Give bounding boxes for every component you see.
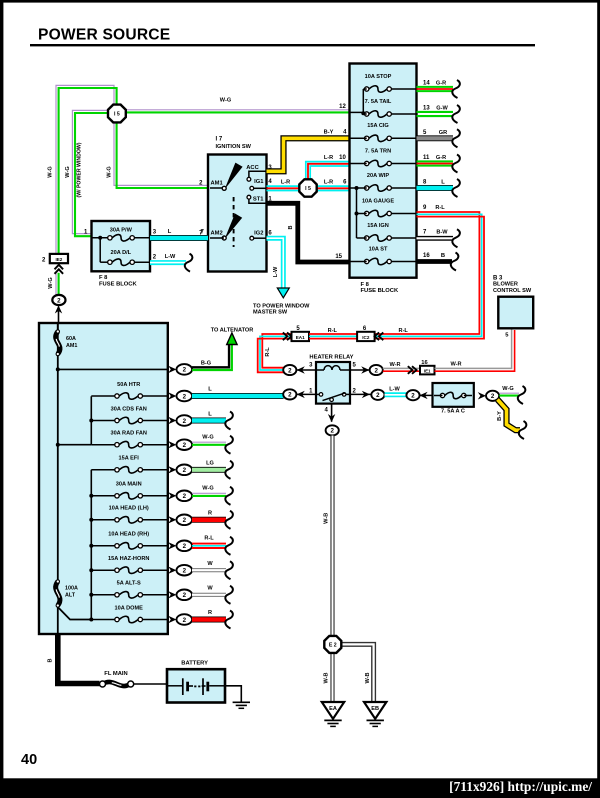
svg-text:G-R: G-R [436, 155, 446, 161]
wire R (10A DOME) [192, 617, 226, 623]
svg-text:2: 2 [183, 493, 187, 500]
internal feed ST [350, 261, 367, 263]
svg-text:2: 2 [183, 367, 187, 374]
svg-text:R-L: R-L [265, 347, 271, 357]
svg-text:BATTERY: BATTERY [181, 661, 208, 667]
wire W-G from node I5 down to P/W fuse block pin 1 [72, 110, 108, 233]
svg-text:40: 40 [21, 752, 37, 768]
svg-text:5A ALT-S: 5A ALT-S [117, 581, 141, 587]
svg-text:10A ST: 10A ST [369, 246, 388, 252]
wire to battery [134, 683, 167, 685]
svg-text:W-B: W-B [323, 513, 329, 524]
wire W-B from E2 to ground EB [341, 643, 376, 702]
main bus vertical [57, 323, 59, 581]
svg-text:FL MAIN: FL MAIN [104, 671, 127, 677]
svg-text:W-G: W-G [48, 166, 54, 177]
diagonal from ALT to DOME row [58, 607, 92, 620]
svg-text:15: 15 [335, 254, 342, 260]
output pin arrow + connector 2 [168, 366, 176, 373]
svg-text:2: 2 [183, 467, 187, 474]
wire L-W from D/L fuse pin 2 [150, 260, 186, 265]
svg-text:W-G: W-G [107, 166, 113, 177]
internal rail WIP/GAUGE/IGN [350, 187, 367, 189]
output pin arrow + connector 2 [168, 392, 176, 399]
relay coil [316, 369, 324, 371]
svg-text:IG2: IG2 [254, 230, 263, 236]
wire W-G (30A RAD FAN) [192, 441, 226, 443]
svg-text:11: 11 [423, 155, 430, 161]
svg-text:L-R: L-R [324, 180, 333, 186]
svg-text:2: 2 [183, 418, 187, 425]
svg-text:ST1: ST1 [253, 196, 264, 202]
svg-text:60A: 60A [66, 336, 76, 342]
wire LG (15A EFI) [192, 467, 226, 473]
output pin arrow + connector 2 [168, 567, 176, 574]
svg-text:L-R: L-R [324, 155, 333, 161]
fusible link 100A ALT [56, 582, 60, 606]
svg-text:F 8: F 8 [361, 282, 370, 288]
wire W-B from E2 to ground EA [330, 652, 334, 702]
svg-text:7. 5A TRN: 7. 5A TRN [365, 148, 391, 154]
svg-text:B-Y: B-Y [497, 411, 503, 421]
wire B-Y from ACC to fuse block pin 4 [267, 138, 350, 171]
svg-text:B: B [288, 225, 294, 229]
svg-text:EB: EB [371, 706, 379, 712]
svg-text:30A CDS FAN: 30A CDS FAN [111, 406, 147, 412]
svg-text:30A P/W: 30A P/W [110, 227, 133, 233]
svg-text:L-W: L-W [273, 266, 279, 277]
svg-text:IE1: IE1 [424, 369, 431, 374]
svg-text:2: 2 [288, 392, 292, 399]
main fuse box (power distribution) [39, 323, 168, 634]
arrow into main fuse box from node 2 [58, 311, 60, 323]
output pin arrow + connector 2 [168, 466, 176, 473]
svg-text:15A EFI: 15A EFI [119, 456, 140, 462]
ignition mechanical link (dashed) [233, 197, 235, 247]
node I5 (octagon, top left) [108, 105, 126, 123]
output pin arrow + connector 2 [168, 616, 176, 623]
wire R (10A HEAD LH) [192, 517, 226, 523]
svg-text:L-W: L-W [165, 254, 176, 260]
svg-text:LG: LG [206, 460, 214, 466]
svg-text:[711x926] http://upic.me/: [711x926] http://upic.me/ [449, 779, 592, 794]
svg-text:L: L [208, 411, 212, 417]
svg-text:16: 16 [423, 253, 430, 259]
ignition switch lever AM1 [225, 163, 243, 190]
svg-text:2: 2 [288, 367, 292, 374]
fuse rail inside left F8 [99, 238, 101, 262]
svg-text:E 2: E 2 [329, 642, 337, 648]
B-G output row (to alternator) [58, 368, 168, 370]
relay pin 1 connector (from 50A HTR) [296, 393, 316, 395]
wire L (30A CDS FAN) [192, 418, 226, 424]
relay pin 3 connector 2 [296, 369, 316, 371]
svg-text:B: B [441, 253, 445, 259]
svg-text:15A CIG: 15A CIG [367, 123, 389, 129]
svg-text:B 3: B 3 [493, 275, 503, 281]
svg-text:W-G: W-G [48, 277, 54, 288]
svg-text:15A HAZ-HORN: 15A HAZ-HORN [108, 556, 149, 562]
svg-text:AM1: AM1 [211, 181, 224, 187]
svg-text:B-W: B-W [436, 229, 448, 235]
fuse block F8 (left) box [92, 221, 151, 271]
svg-text:FUSE BLOCK: FUSE BLOCK [99, 281, 137, 287]
svg-text:2: 2 [57, 297, 61, 304]
output pin arrow + connector 2 [168, 492, 176, 499]
node I5 (octagon, near ignition) [299, 179, 316, 196]
fuse rail (EFI-DOME) [90, 470, 92, 620]
svg-text:IGNITION SW: IGNITION SW [216, 144, 252, 150]
svg-text:2: 2 [183, 568, 187, 575]
svg-text:TO ALTENATOR: TO ALTENATOR [211, 327, 254, 333]
fuse 7.5A A C box [433, 383, 474, 407]
svg-text:I 5: I 5 [305, 186, 311, 192]
wire W (15A HAZ-HORN) [192, 568, 226, 572]
svg-text:100A: 100A [65, 586, 78, 592]
svg-text:50A HTR: 50A HTR [117, 382, 140, 388]
svg-text:AM2: AM2 [211, 230, 223, 236]
svg-text:7. 5A A C: 7. 5A A C [441, 409, 465, 415]
svg-text:W-G: W-G [502, 386, 513, 392]
output pin arrow + connector 2 [168, 516, 176, 523]
wire R-L from EA1 down to relay pin 3 [262, 334, 291, 368]
output pin arrow + connector 2 [168, 542, 176, 549]
svg-text:10A HEAD (RH): 10A HEAD (RH) [108, 532, 149, 538]
svg-text:2: 2 [491, 393, 495, 400]
output pin arrow + connector 2 [168, 591, 176, 598]
wire B-G to alternator [192, 342, 229, 367]
svg-text:10A STOP: 10A STOP [365, 74, 392, 80]
connector IC2 [357, 332, 375, 341]
wire W-G loop from IE2 riser to node I5 (top) [56, 85, 114, 254]
svg-text:EA: EA [329, 706, 337, 712]
connector EA1 [287, 333, 292, 341]
connector IE2 [50, 254, 68, 263]
wire B from ST1 to fuse block pin 15 [267, 203, 350, 262]
output pin arrow + connector 2 [168, 417, 176, 424]
svg-text:2: 2 [330, 428, 334, 435]
svg-text:R-L: R-L [435, 205, 445, 211]
svg-text:12: 12 [339, 104, 346, 110]
svg-text:2: 2 [183, 543, 187, 550]
fuse rail (HTR-RAD) [90, 396, 92, 444]
svg-text:W: W [207, 585, 213, 591]
internal feed TRN [350, 163, 367, 165]
svg-text:EA1: EA1 [296, 335, 305, 340]
svg-text:L: L [441, 179, 445, 185]
wire L-R from node I5 to fuse block pin 6 [316, 185, 349, 187]
op: ignition switch I7 box [208, 155, 267, 272]
internal feed CIG [350, 137, 367, 139]
svg-text:20A D/L: 20A D/L [110, 250, 131, 256]
svg-text:GR: GR [439, 130, 447, 136]
node 2 (circle, left) [52, 295, 65, 305]
svg-text:HEATER RELAY: HEATER RELAY [309, 354, 353, 360]
svg-text:W-B: W-B [365, 672, 371, 683]
wire L (50A HTR) to heater relay [192, 393, 284, 399]
svg-text:W-B: W-B [323, 672, 329, 683]
bus tap to rail [58, 444, 92, 446]
wire W-G (30A MAIN) [192, 492, 226, 494]
svg-text:7. 5A TAIL: 7. 5A TAIL [365, 99, 392, 105]
ignition switch lever AM2 [225, 214, 243, 240]
svg-text:W-R: W-R [450, 362, 461, 368]
svg-text:R: R [208, 610, 212, 616]
svg-text:W-G: W-G [202, 434, 213, 440]
svg-text:10A GAUGE: 10A GAUGE [362, 198, 394, 204]
svg-text:L: L [208, 387, 212, 393]
A/C fuse output connector [478, 392, 486, 399]
svg-text:W-G: W-G [202, 485, 213, 491]
svg-text:B: B [47, 658, 53, 662]
wire W-G from IE2 to node 2 [55, 273, 57, 296]
svg-text:IE2: IE2 [55, 257, 62, 262]
svg-text:FUSE BLOCK: FUSE BLOCK [361, 288, 399, 294]
wire B from main box to FL MAIN [58, 634, 100, 684]
svg-text:10: 10 [339, 155, 346, 161]
wire B-Y output [498, 400, 521, 431]
svg-text:2: 2 [376, 392, 380, 399]
svg-text:I 5: I 5 [114, 111, 120, 117]
svg-text:L-W: L-W [389, 386, 400, 392]
svg-text:2: 2 [183, 592, 187, 599]
relay pin 2 to A/C fuse (L-W) [350, 393, 371, 395]
wire W (5A ALT-S) [192, 593, 226, 597]
relay pin 4 connector 2 [331, 404, 333, 422]
svg-text:F 8: F 8 [99, 275, 108, 281]
battery ground [225, 686, 241, 703]
svg-text:BLOWER: BLOWER [493, 282, 518, 288]
svg-text:20A WIP: 20A WIP [367, 173, 389, 179]
svg-text:W-R: W-R [389, 362, 400, 368]
svg-text:2: 2 [183, 393, 187, 400]
svg-text:2: 2 [183, 517, 187, 524]
svg-text:15A IGN: 15A IGN [367, 223, 389, 229]
svg-text:R-L: R-L [399, 328, 409, 334]
wire W-B from relay pin 4 to node E2 [330, 436, 334, 637]
svg-text:POWER SOURCE: POWER SOURCE [38, 27, 170, 44]
svg-text:IC2: IC2 [362, 335, 370, 340]
wire R-L between EA1 and IC2 [309, 333, 357, 335]
svg-text:10A HEAD (LH): 10A HEAD (LH) [109, 506, 149, 512]
wire W-G from node I5 right to fuse block F8 pin 12 [126, 109, 350, 111]
output pin arrow + connector 2 [168, 441, 176, 448]
svg-text:30A RAD FAN: 30A RAD FAN [110, 431, 146, 437]
wire W-R from IE1 to blower control switch [435, 328, 512, 368]
arrow to power window master sw [277, 288, 289, 298]
wire L-R from node I5 up to fuse block pin 10 [306, 162, 350, 181]
svg-text:AM1: AM1 [66, 343, 77, 349]
connector IE1 [420, 366, 435, 375]
svg-text:W-G: W-G [65, 166, 71, 177]
svg-text:L: L [168, 229, 172, 235]
relay pin 5 to IE1 (W-R) [350, 369, 370, 371]
svg-text:14: 14 [423, 81, 430, 87]
fusible link 60A AM1 [57, 323, 59, 331]
svg-text:30A MAIN: 30A MAIN [116, 482, 142, 488]
svg-text:ALT: ALT [65, 593, 76, 599]
svg-text:ACC: ACC [246, 165, 259, 171]
wire W-G output [499, 392, 519, 394]
junction chevrons below IE2 [55, 265, 64, 270]
svg-text:MASTER SW: MASTER SW [253, 310, 288, 316]
fuse block F8 (top right) box [350, 64, 417, 278]
svg-text:TO POWER WINDOW: TO POWER WINDOW [253, 303, 310, 309]
svg-text:16: 16 [421, 360, 428, 366]
svg-text:10A DOME: 10A DOME [115, 605, 144, 611]
svg-text:W: W [207, 561, 213, 567]
svg-text:B-G: B-G [201, 360, 211, 366]
svg-text:2: 2 [374, 367, 378, 374]
ground EB [364, 702, 386, 719]
svg-text:R-L: R-L [328, 328, 338, 334]
svg-text:G-W: G-W [436, 106, 448, 112]
internal rail STOP/TAIL [363, 88, 366, 90]
svg-text:CONTROL SW: CONTROL SW [493, 288, 532, 294]
svg-text:13: 13 [423, 106, 430, 112]
svg-text:G-R: G-R [436, 81, 446, 87]
svg-text:IG1: IG1 [254, 179, 264, 185]
svg-text:R-L: R-L [204, 535, 214, 541]
wire L-W from IG2 to power window master switch [267, 238, 284, 288]
svg-text:L-R: L-R [281, 180, 290, 186]
wire L from P/W fuse pin 3 to ignition AM2 [150, 235, 208, 241]
svg-text:2: 2 [411, 393, 415, 400]
wire W-G from node I5 down to ignition switch AM1 [114, 123, 208, 186]
svg-text:2: 2 [183, 617, 187, 624]
wire L-R from IG1 to node I5 (right) [267, 185, 300, 187]
svg-text:2: 2 [183, 442, 187, 449]
relay contact [316, 393, 319, 395]
svg-text:W-G: W-G [220, 98, 231, 104]
svg-text:(W/ POWER WINDOW): (W/ POWER WINDOW) [77, 142, 83, 197]
ground EA [322, 702, 344, 719]
svg-text:I 7: I 7 [216, 137, 223, 143]
wire R-L (10A HEAD RH) [192, 543, 226, 545]
svg-text:B-Y: B-Y [324, 130, 334, 136]
svg-text:R: R [208, 510, 212, 516]
